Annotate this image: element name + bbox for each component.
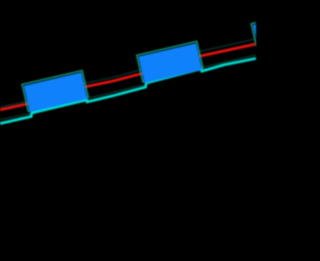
wire dark lower segment a (dim teal, left of R1) <box>0 113 31 120</box>
wire cyan net (lower wire jogging under each component) <box>0 58 256 123</box>
wire dark lower segment b (dim teal, between R1 and R2) <box>88 85 144 99</box>
resistor R1 (left component: blue body + teal courtyard outline) <box>22 71 89 113</box>
wire red net (upper wire through components) <box>0 44 256 110</box>
wire dark upper (dim teal line above red net) <box>0 39 256 107</box>
resistor R2 (middle component: blue body + teal courtyard outline) <box>137 41 204 83</box>
resistor R3 (right component, partially off-canvas) <box>251 10 318 52</box>
wire dark lower segment c (dim teal, between R2 and R3) <box>204 55 256 67</box>
